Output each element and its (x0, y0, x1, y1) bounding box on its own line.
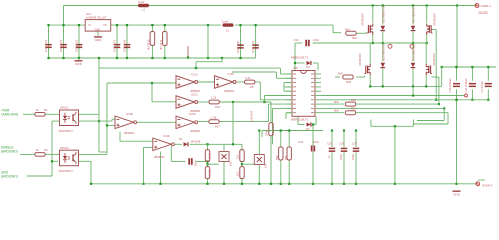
svg-text:R20: R20 (351, 98, 357, 102)
svg-text:OK101: OK101 (60, 106, 69, 110)
svg-text:C1 470nF: C1 470nF (480, 81, 484, 93)
svg-text:6k8: 6k8 (338, 72, 343, 76)
svg-text:IRF9530P: IRF9530P (433, 13, 437, 26)
svg-text:1k2: 1k2 (236, 171, 240, 176)
svg-text:IC2F: IC2F (228, 72, 235, 76)
svg-text:GND: GND (95, 38, 103, 42)
svg-text:1u: 1u (327, 155, 331, 158)
svg-text:C36: C36 (339, 142, 345, 146)
svg-text:SFH6186-2: SFH6186-2 (59, 129, 74, 133)
svg-text:4k7 R10: 4k7 R10 (146, 39, 150, 50)
svg-text:L2: L2 (226, 29, 230, 33)
svg-text:(ARDUINO): (ARDUINO) (1, 175, 18, 179)
svg-text:D3: D3 (306, 127, 310, 131)
svg-text:100u C28: 100u C28 (123, 39, 127, 52)
svg-text:LINEAR 78L12T: LINEAR 78L12T (86, 16, 107, 20)
svg-text:(ARDUINO): (ARDUINO) (2, 113, 19, 117)
svg-text:IC4B: IC4B (126, 112, 133, 116)
svg-text:R23: R23 (346, 80, 352, 84)
svg-text:100n C30: 100n C30 (236, 40, 240, 53)
svg-text:56k: 56k (275, 155, 279, 160)
svg-text:1k: 1k (36, 108, 40, 112)
svg-text:4558ND: 4558ND (190, 129, 200, 133)
svg-text:100n C25: 100n C25 (59, 39, 63, 52)
svg-text:IC1E: IC1E (189, 112, 196, 116)
svg-text:1,2k: 1,2k (211, 96, 217, 100)
svg-text:100n: 100n (339, 154, 343, 160)
svg-text:1,5k: 1,5k (211, 115, 217, 119)
svg-text:C33: C33 (294, 38, 300, 42)
svg-text:1k00: 1k00 (208, 153, 212, 159)
svg-text:100k R18: 100k R18 (250, 110, 254, 122)
svg-text:100n: 100n (351, 154, 355, 160)
svg-text:D11 MBR1045: D11 MBR1045 (412, 6, 416, 23)
svg-text:C40 2200uF: C40 2200uF (448, 78, 452, 93)
svg-text:R2: R2 (44, 148, 48, 152)
svg-text:C37: C37 (352, 142, 358, 146)
svg-text:GND: GND (95, 29, 101, 32)
svg-text:R16: R16 (215, 105, 221, 109)
svg-text:56k: 56k (284, 155, 288, 160)
svg-text:IRF9530P: IRF9530P (432, 53, 436, 66)
svg-text:C41 2200uF: C41 2200uF (464, 78, 468, 93)
svg-text:100n C27: 100n C27 (113, 39, 117, 52)
svg-text:4B1B4D: 4B1B4D (124, 131, 134, 135)
svg-text:10k: 10k (263, 163, 267, 168)
svg-text:SFH6186-2: SFH6186-2 (59, 169, 74, 173)
svg-text:1k2: 1k2 (236, 154, 240, 159)
svg-text:D13 MBR1045: D13 MBR1045 (412, 43, 416, 61)
svg-text:6k8: 6k8 (334, 109, 339, 113)
svg-text:IRF9530P: IRF9530P (361, 13, 365, 26)
svg-text:OVER-1: OVER-1 (481, 4, 492, 8)
svg-text:C34: C34 (298, 140, 304, 144)
svg-text:D4: D4 (306, 65, 310, 69)
svg-text:OVER-2: OVER-2 (482, 183, 493, 187)
svg-text:IC1A: IC1A (191, 72, 198, 76)
svg-text:IRF9530P: IRF9530P (358, 53, 362, 66)
svg-text:1,2k: 1,2k (245, 76, 251, 80)
svg-text:4k7 R11: 4k7 R11 (159, 39, 163, 50)
svg-text:R21: R21 (351, 107, 357, 111)
svg-text:100n: 100n (313, 140, 320, 144)
svg-text:1mH: 1mH (138, 0, 144, 4)
svg-text:R22: R22 (352, 36, 358, 40)
svg-text:GND: GND (453, 192, 461, 196)
svg-text:(ARDUINO): (ARDUINO) (1, 150, 18, 154)
svg-text:6k8: 6k8 (334, 100, 339, 104)
svg-text:D1: D1 (179, 137, 183, 141)
svg-text:6k8: 6k8 (345, 27, 350, 31)
svg-text:D10 MBR1045: D10 MBR1045 (381, 5, 385, 23)
svg-text:4558ND: 4558ND (224, 89, 234, 93)
svg-text:GND: GND (478, 178, 486, 182)
svg-text:1mH: 1mH (222, 20, 228, 24)
svg-text:IC1C: IC1C (191, 92, 199, 96)
svg-text:VI: VI (88, 23, 91, 27)
svg-text:MBR5130LT3: MBR5130LT3 (291, 56, 308, 60)
svg-text:L1: L1 (142, 8, 146, 12)
svg-text:10k: 10k (229, 161, 233, 166)
svg-text:100n C24: 100n C24 (44, 39, 48, 52)
svg-text:R1: R1 (44, 108, 48, 112)
svg-text:GND: GND (75, 62, 83, 66)
svg-text:D12 MBR1045: D12 MBR1045 (381, 43, 385, 61)
svg-text:1k00: 1k00 (208, 170, 212, 176)
svg-text:24VDC: 24VDC (478, 11, 489, 15)
svg-text:MBR5130LT3: MBR5130LT3 (291, 118, 308, 122)
svg-text:1N4148: 1N4148 (191, 139, 201, 143)
svg-text:C35: C35 (327, 142, 333, 146)
svg-text:IC4D: IC4D (163, 134, 171, 138)
svg-text:100n C26: 100n C26 (75, 39, 79, 52)
svg-text:OK102: OK102 (60, 146, 69, 150)
svg-text:IC5: IC5 (293, 66, 298, 70)
svg-text:VO: VO (103, 23, 108, 27)
svg-text:R6: R6 (250, 85, 254, 89)
svg-text:1k: 1k (36, 148, 40, 152)
svg-text:100k: 100k (265, 130, 269, 136)
svg-text:100n: 100n (193, 160, 197, 167)
svg-text:4B1B4D: 4B1B4D (154, 155, 164, 159)
svg-text:100n: 100n (313, 38, 320, 42)
svg-text:R17: R17 (215, 124, 221, 128)
svg-text:100n C31: 100n C31 (251, 40, 255, 53)
